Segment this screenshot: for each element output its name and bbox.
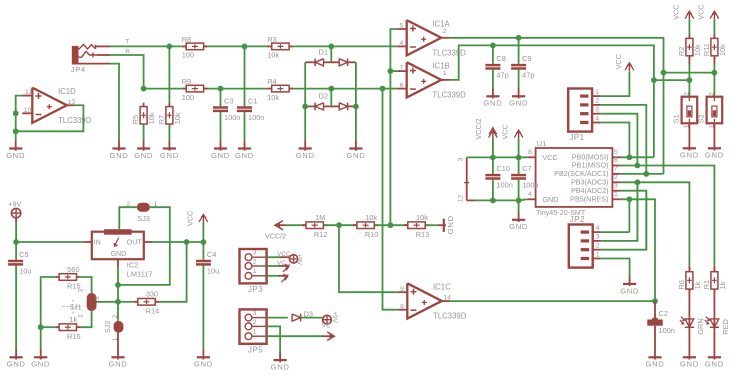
wire C7 bot lead: [518, 180, 520, 201]
wire pin7 stub: [390, 70, 397, 72]
wire left rail gnd: [40, 327, 42, 349]
svg-text:S2: S2: [697, 114, 706, 123]
resistor R6: [677, 268, 702, 293]
svg-text:1: 1: [614, 191, 618, 198]
svg-text:SJ1: SJ1: [69, 303, 81, 312]
wire IC1A to PB2: [663, 73, 665, 174]
wire C9 top: [518, 38, 520, 64]
svg-text:GND: GND: [211, 151, 230, 160]
wire C5 top: [15, 242, 17, 260]
ground S2: [705, 140, 724, 160]
diode pair D1: [315, 59, 348, 67]
wire JP5 pin1: [267, 335, 322, 337]
ground JP5: [271, 352, 290, 372]
svg-text:C7: C7: [522, 164, 531, 173]
wire R2 to S1: [688, 64, 690, 97]
supply VCC/2 C10: [474, 118, 497, 139]
svg-text:OUT: OUT: [127, 239, 143, 246]
resistor R5: [131, 103, 156, 128]
svg-text:JP1: JP1: [569, 133, 584, 142]
svg-text:R2: R2: [677, 47, 686, 56]
svg-text:R8: R8: [182, 35, 191, 44]
R1 top lead: [713, 266, 715, 272]
node C7 top: [516, 155, 522, 161]
wire IC1C out rail: [450, 300, 655, 302]
connector JP2: [569, 215, 601, 268]
svg-text:3: 3: [596, 234, 600, 241]
svg-text:1: 1: [78, 314, 85, 318]
svg-text:GND: GND: [194, 360, 213, 369]
RED gnd lead: [713, 331, 715, 349]
wire C1 bottom: [244, 112, 246, 140]
svg-text:2: 2: [253, 319, 257, 326]
wire C9 bot: [518, 70, 520, 88]
IC1B pin 7 label: [400, 65, 404, 72]
U1 pin 1 label: [614, 191, 618, 198]
wire JP2 pin2: [601, 191, 646, 250]
svg-text:GND: GND: [542, 195, 558, 204]
resistor R14: [134, 290, 159, 316]
svg-text:2: 2: [683, 92, 690, 96]
svg-text:IC2: IC2: [127, 261, 139, 270]
svg-text:3: 3: [78, 288, 85, 292]
wire vcc stem out: [202, 223, 204, 242]
svg-text:IC1B: IC1B: [432, 62, 449, 71]
D1 row leads: [305, 61, 356, 63]
svg-text:+9V: +9V: [331, 311, 338, 323]
supply VCC R11: [696, 5, 718, 20]
svg-text:GND: GND: [7, 360, 26, 369]
svg-text:+9V: +9V: [8, 200, 21, 209]
solder jumper SJ1: [63, 288, 101, 317]
svg-text:5: 5: [400, 23, 404, 30]
svg-text:GND: GND: [6, 151, 25, 160]
svg-text:GND: GND: [110, 151, 129, 160]
svg-text:VCC: VCC: [696, 5, 705, 20]
svg-text:R4: R4: [267, 77, 276, 86]
svg-text:3: 3: [253, 250, 257, 257]
svg-text:IC1D: IC1D: [58, 87, 76, 96]
ground GRN: [680, 349, 699, 369]
U1 pin 4 label: [528, 191, 532, 198]
node PB2 jp: [643, 171, 649, 177]
node C10 bot: [490, 198, 496, 204]
svg-text:2: 2: [253, 258, 257, 265]
wire C3 top: [220, 89, 222, 107]
wire vcc2 rail: [467, 156, 519, 158]
ground C1: [235, 140, 254, 160]
U1 pin 5 label: [614, 149, 618, 156]
svg-text:10k: 10k: [693, 44, 702, 56]
wire R10 R13: [375, 224, 407, 226]
wire R14 left: [118, 301, 134, 303]
svg-text:1k: 1k: [718, 281, 727, 289]
jack ring label R: [125, 49, 130, 56]
ground D left: [296, 140, 315, 160]
node D left: [302, 104, 308, 110]
wire bias pin5: [390, 29, 397, 226]
connector JP1: [568, 89, 600, 143]
svg-text:100n: 100n: [522, 181, 538, 190]
svg-text:7: 7: [614, 166, 618, 173]
wire R5 to gnd: [143, 124, 145, 140]
node D right: [353, 104, 359, 110]
ground RED: [705, 349, 724, 369]
svg-text:R3: R3: [267, 35, 276, 44]
svg-text:U1: U1: [537, 139, 547, 148]
svg-text:14: 14: [443, 294, 451, 301]
R6 bottom lead: [688, 289, 690, 316]
svg-text:1: 1: [596, 251, 600, 258]
wire R14 right: [159, 242, 187, 302]
svg-text:11: 11: [25, 89, 32, 96]
svg-text:1: 1: [253, 329, 257, 336]
svg-text:C1: C1: [248, 97, 257, 106]
resistor R15: [55, 265, 80, 291]
svg-text:C8: C8: [496, 54, 505, 63]
resistor R4: [267, 77, 293, 102]
supply VCC R2: [671, 5, 693, 20]
svg-text:2: 2: [596, 243, 600, 250]
resistor R1: [702, 268, 727, 293]
svg-text:10k: 10k: [365, 213, 377, 222]
wire row2 a: [144, 88, 221, 90]
svg-text:7: 7: [400, 65, 404, 72]
node row1 C1: [242, 44, 248, 50]
ground SJ2: [109, 349, 128, 369]
IC1B pin 6 label: [400, 82, 404, 89]
supply VCC/2 arrow left: [265, 221, 286, 241]
wire PB5 to JP2 pin4: [628, 199, 630, 232]
svg-text:VCC: VCC: [614, 54, 623, 69]
svg-text:GND: GND: [160, 151, 179, 160]
node bias pin7: [388, 68, 394, 74]
svg-text:R16: R16: [67, 332, 81, 341]
svg-text:2: 2: [443, 28, 447, 35]
wire PB5 row: [621, 199, 655, 301]
node R10 R13: [388, 222, 394, 228]
node adj R14: [115, 299, 121, 305]
svg-text:VCC/2: VCC/2: [474, 118, 483, 139]
IC1A pin 4 label: [400, 40, 404, 47]
wire vcc R11: [713, 20, 715, 35]
resistor R9: [182, 77, 208, 102]
wire IC1B to PB0: [653, 80, 655, 157]
wire IC1D to gnd: [15, 131, 17, 140]
svg-text:VCC: VCC: [501, 124, 510, 139]
op-amp IC1D: [32, 87, 91, 125]
resistor R8: [182, 35, 208, 60]
svg-text:1: 1: [253, 268, 257, 275]
svg-text:SJ3: SJ3: [137, 214, 150, 223]
S2 gnd lead: [713, 123, 715, 140]
wire C8 top: [492, 45, 494, 64]
wire JP2 pin1 gnd: [601, 259, 629, 276]
U1 pin 3 label: [614, 182, 618, 189]
resistor R7: [157, 103, 182, 128]
solder jumper SJ2: [103, 315, 124, 350]
IC1 power pins 3 12 bracket: [457, 157, 475, 202]
svg-text:S1: S1: [672, 114, 681, 123]
svg-text:GND: GND: [705, 360, 724, 369]
ground rotated R13: [438, 215, 455, 234]
wire PB4 row: [621, 191, 647, 250]
S1 gnd lead: [688, 123, 690, 140]
IC1C pin leads: [398, 292, 450, 310]
IC1D pin 11 label: [25, 89, 32, 96]
svg-text:1k: 1k: [69, 315, 77, 324]
wire PB2 row: [621, 173, 664, 175]
wire IC1B out rail: [450, 45, 654, 80]
wire R16 left: [41, 326, 56, 328]
connector JP5: [240, 309, 267, 354]
svg-text:10k: 10k: [416, 213, 428, 222]
resistor R13: [404, 213, 429, 239]
svg-text:TLC339D: TLC339D: [432, 91, 466, 100]
svg-text:C4: C4: [207, 250, 216, 259]
wire D3 to 9v: [301, 317, 323, 319]
node IC1D fb: [13, 128, 19, 134]
wire C1 top: [244, 46, 246, 106]
svg-text:R12: R12: [314, 230, 328, 239]
svg-text:C10: C10: [496, 164, 510, 173]
svg-text:10: 10: [24, 107, 32, 114]
diode D3: [292, 314, 301, 322]
IC2 LM1117 regulator: [84, 229, 153, 278]
label D1: [319, 47, 328, 56]
wire PB0 row: [621, 156, 654, 158]
svg-text:4: 4: [400, 40, 404, 47]
supply +9V input: [11, 208, 20, 217]
wire C7 top lead: [518, 157, 520, 174]
svg-text:12: 12: [457, 195, 464, 203]
wire R7 to gnd: [168, 124, 170, 140]
node PB3 jp2: [635, 179, 641, 185]
U1 right pin leads: [612, 157, 620, 199]
wire SJ3 right: [118, 207, 170, 285]
svg-text:R5: R5: [131, 115, 140, 124]
svg-text:6: 6: [614, 157, 618, 164]
wire C4 bot: [202, 266, 204, 350]
capacitor C8: [485, 54, 508, 79]
op-amp IC1A: [407, 19, 466, 57]
wire U1 gnd lead: [519, 199, 528, 200]
wire JP3 pin2: [267, 265, 279, 267]
LED GRN: [680, 316, 705, 335]
svg-text:GND: GND: [271, 363, 290, 372]
jack tip label T: [125, 39, 129, 46]
svg-text:C2: C2: [659, 309, 668, 318]
node IC1A S2: [661, 70, 667, 76]
node out R14: [184, 239, 190, 245]
wire IC1D feedback: [16, 105, 84, 131]
svg-text:GND: GND: [509, 222, 528, 231]
IC1D pin 13 label: [68, 99, 76, 106]
wire row2 to pin8: [383, 89, 398, 310]
capacitor C2: [647, 301, 675, 349]
svg-text:GND: GND: [235, 151, 254, 160]
wire adj to SJ2: [117, 302, 119, 322]
IC1B pin 1 label: [443, 70, 447, 77]
IC1A pin leads: [397, 29, 450, 46]
svg-text:GRN: GRN: [696, 318, 705, 334]
capacitor C5: [8, 250, 31, 275]
svg-text:VC: VC: [322, 323, 331, 330]
node row2 D2: [328, 86, 334, 92]
ground R15 R16: [31, 349, 50, 369]
svg-text:2: 2: [94, 296, 101, 300]
svg-text:JP3: JP3: [248, 285, 263, 294]
svg-text:3: 3: [614, 182, 618, 189]
wire PB1 row: [621, 166, 715, 266]
capacitor C1: [237, 97, 264, 122]
svg-text:2: 2: [614, 174, 618, 181]
wire D1 center stub: [330, 46, 332, 62]
IC1D pin leads: [22, 96, 74, 114]
svg-text:GND: GND: [620, 286, 639, 295]
wire JP1 pin1 vcc: [601, 72, 630, 97]
svg-text:10k: 10k: [267, 93, 279, 102]
svg-text:JP4: JP4: [71, 65, 86, 74]
svg-text:GND: GND: [680, 360, 699, 369]
wire 9v down: [15, 223, 17, 242]
R6 top lead: [688, 266, 690, 272]
capacitor C7: [511, 164, 538, 189]
solder jumper SJ3: [127, 201, 158, 223]
svg-text:2: 2: [708, 92, 715, 96]
node row1 D1: [328, 44, 334, 50]
wire R15 right: [80, 277, 91, 293]
svg-text:D2: D2: [319, 91, 328, 100]
supply VCC JP5 arrow: [322, 332, 334, 341]
svg-text:R10: R10: [365, 230, 379, 239]
IC1B pin leads: [397, 71, 450, 89]
node C7 bot: [516, 198, 522, 204]
wire vcc2 stem: [492, 139, 494, 158]
ground R7: [160, 140, 179, 160]
IC1C pin 9 label: [400, 286, 404, 293]
ground C2: [646, 349, 665, 369]
node PB5 jp2: [627, 196, 633, 202]
node ring bias: [141, 86, 147, 92]
wire row1 b: [245, 45, 332, 47]
wire sleeve to ground: [110, 64, 119, 141]
wire row2 b: [221, 88, 332, 90]
U1 pin 8 label: [528, 149, 532, 156]
IC1A pin 5 label: [400, 23, 404, 30]
svg-text:3: 3: [595, 107, 599, 114]
wire JP3 pin1: [267, 275, 278, 277]
resistor R12: [302, 213, 327, 239]
wire R16 right: [80, 311, 91, 327]
supply VCC C7: [501, 124, 523, 139]
svg-text:330: 330: [146, 290, 158, 299]
svg-text:9: 9: [400, 286, 404, 293]
svg-text:8: 8: [400, 303, 404, 310]
wire gnd rail: [475, 199, 519, 201]
ground D right: [346, 140, 365, 160]
supply +9V JP5: [315, 311, 338, 329]
node C10 top: [490, 155, 496, 161]
svg-text:RED: RED: [721, 319, 730, 335]
svg-text:3: 3: [457, 158, 464, 162]
IC U1 ATtiny45 box: [536, 139, 613, 217]
svg-text:10k: 10k: [147, 112, 156, 124]
wire row2 d: [383, 88, 398, 90]
wire vcc stem: [518, 139, 520, 158]
svg-text:4: 4: [528, 191, 532, 198]
supply VCC JP1: [614, 54, 634, 71]
wire C10 top lead: [492, 157, 494, 174]
svg-text:5: 5: [614, 149, 618, 156]
svg-text:GND: GND: [483, 99, 502, 108]
svg-text:6: 6: [400, 82, 404, 89]
wire 9v to IN: [16, 241, 84, 243]
svg-text:R11: R11: [702, 43, 711, 56]
svg-text:GND: GND: [134, 151, 153, 160]
svg-text:VCC: VCC: [542, 153, 557, 162]
wire PB3 to JP2 pin3: [636, 182, 638, 241]
svg-text:100n: 100n: [496, 181, 512, 190]
supply VCC/2 JP3 arrow: [278, 274, 288, 282]
svg-text:47p: 47p: [522, 71, 534, 80]
wire R11 to S2: [713, 64, 715, 97]
U1 left pin leads: [527, 157, 535, 199]
svg-text:TLC339D: TLC339D: [432, 49, 466, 58]
svg-text:47p: 47p: [496, 71, 508, 80]
node row2 IC1C tap: [380, 86, 386, 92]
svg-text:PB5(NRES): PB5(NRES): [570, 194, 608, 203]
ground C8: [483, 88, 502, 108]
svg-text:4: 4: [595, 115, 599, 122]
svg-text:100n: 100n: [659, 326, 675, 335]
svg-text:D1: D1: [319, 47, 328, 56]
wire C3 bottom: [220, 112, 222, 140]
svg-text:1: 1: [595, 89, 599, 96]
wire ring contact: [110, 55, 144, 89]
wire JP2 pin4: [601, 231, 629, 233]
ground C4: [194, 349, 213, 369]
node PB0 jp: [627, 154, 633, 160]
svg-text:1M: 1M: [315, 213, 325, 222]
wire D left column: [304, 62, 306, 140]
svg-text:GND: GND: [446, 215, 455, 234]
node row2 C3: [218, 86, 224, 92]
wire C10 bot lead: [492, 180, 494, 201]
svg-text:GND: GND: [296, 151, 315, 160]
label +9V: [8, 200, 21, 209]
U1 pin 6 label: [614, 157, 618, 164]
capacitor C4: [196, 250, 219, 275]
svg-text:GND: GND: [646, 360, 665, 369]
svg-text:R14: R14: [146, 306, 160, 315]
svg-text:R6: R6: [677, 280, 686, 289]
LED RED: [705, 316, 730, 335]
wire row1 c: [331, 45, 397, 47]
ground C9: [509, 88, 528, 108]
svg-text:C9: C9: [522, 54, 531, 63]
svg-text:T: T: [125, 39, 129, 46]
wire row2 c: [331, 88, 382, 90]
IC1D pin 10 label: [24, 107, 32, 114]
svg-text:VCC: VCC: [671, 5, 680, 20]
label D3: [304, 310, 313, 319]
capacitor C9: [511, 54, 534, 79]
svg-text:SJ2: SJ2: [103, 321, 112, 333]
wire C4 top: [202, 242, 204, 260]
node C9 tap: [516, 35, 522, 41]
R1 bottom lead: [713, 289, 715, 316]
